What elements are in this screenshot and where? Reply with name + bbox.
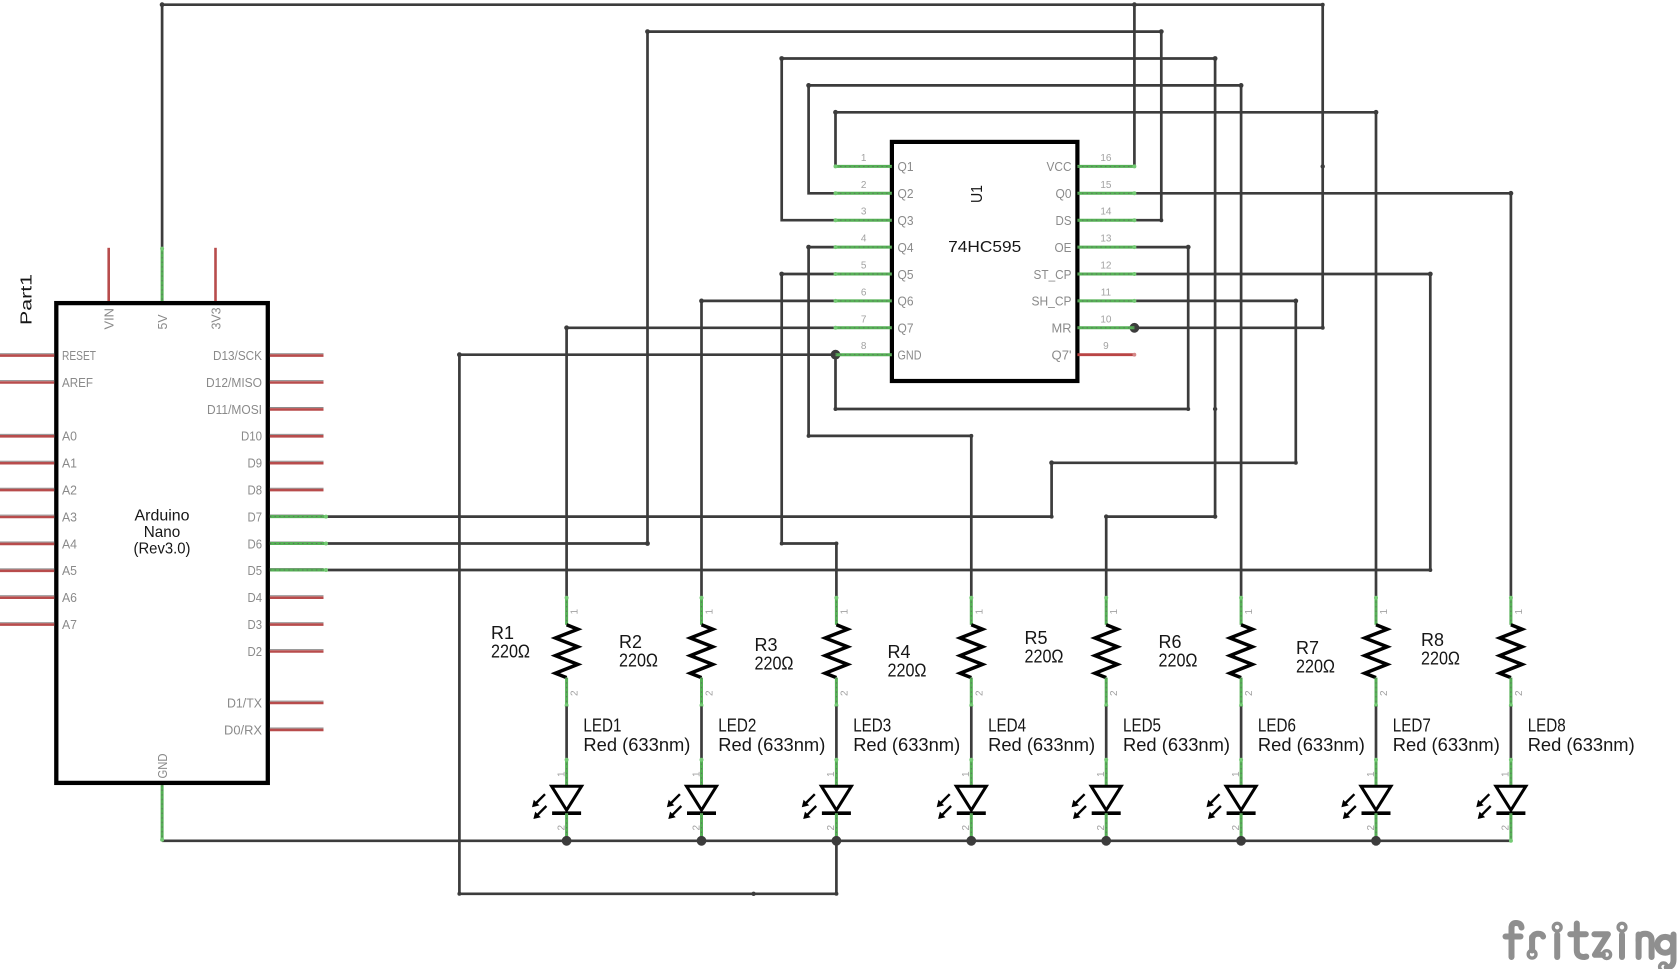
svg-text:Part1: Part1 [19,274,36,325]
svg-text:Red (633nm): Red (633nm) [1393,734,1500,755]
svg-text:1: 1 [1109,609,1120,615]
pin 1 Q1 (U1 left) [836,165,892,168]
wire D6 to DS (pin 14) [326,32,1161,544]
svg-text:2: 2 [1514,690,1525,696]
svg-text:Q5: Q5 [898,267,914,282]
svg-text:2: 2 [839,690,850,696]
svg-text:220Ω: 220Ω [1296,656,1335,677]
wire Q6 (pin 6) to R2 [702,301,836,597]
LED2 emission arrows [670,794,680,804]
svg-text:A4: A4 [62,536,77,551]
wire R7 to LED7 [1375,706,1378,758]
pin D5 (Arduino right) [270,567,324,569]
svg-text:1: 1 [961,771,972,777]
pin RESET (Arduino left) [0,353,54,355]
svg-text:LED7: LED7 [1393,715,1431,736]
wire R3 to LED3 [835,706,838,758]
svg-text:D6: D6 [248,536,263,551]
svg-text:U1: U1 [969,185,986,203]
svg-text:1: 1 [705,609,716,615]
svg-text:Q2: Q2 [898,186,914,201]
svg-text:2: 2 [1379,690,1390,696]
svg-text:A6: A6 [62,590,77,605]
wire GND stub riser to bus [459,355,836,894]
svg-text:Red (633nm): Red (633nm) [988,734,1095,755]
svg-text:AREF: AREF [62,375,93,390]
svg-text:220Ω: 220Ω [755,653,794,674]
svg-text:D2: D2 [248,644,263,659]
wire Q0 (pin 15) to R8 [1134,193,1511,597]
svg-text:16: 16 [1100,153,1112,164]
resistor R5 220ohm [1105,597,1108,625]
pin A2 (Arduino left) [0,487,54,489]
resistor R8 220ohm [1509,597,1512,625]
wire R1 to LED1 [565,706,568,758]
svg-text:Red (633nm): Red (633nm) [583,734,690,755]
svg-text:VCC: VCC [1047,159,1072,174]
svg-text:2: 2 [1231,825,1242,831]
svg-text:A1: A1 [62,456,77,471]
svg-text:OE: OE [1055,240,1072,255]
pin D4 (Arduino right) [270,595,324,597]
pin A1 (Arduino left) [0,460,54,462]
pin 9 Q7' (U1 right) [1077,353,1134,356]
pin 13 OE (U1 right) [1077,246,1134,249]
svg-text:D12/MISO: D12/MISO [206,375,262,390]
pin D1/TX (Arduino right) [270,700,324,702]
pin 2 Q2 (U1 left) [836,192,892,195]
svg-text:2: 2 [1109,690,1120,696]
svg-text:220Ω: 220Ω [619,650,658,671]
op-chip U1 74HC595 body [892,142,1078,381]
svg-text:15: 15 [1100,180,1112,191]
svg-text:D0/RX: D0/RX [224,722,262,737]
svg-text:11: 11 [1101,287,1112,298]
pin 16 VCC (U1 right) [1077,165,1134,168]
svg-text:14: 14 [1100,207,1112,218]
pin 8 GND (U1 left) [836,353,892,356]
LED3 emission arrows [805,794,815,804]
svg-text:1: 1 [1514,609,1525,615]
LED LED8 Red 633nm [1509,759,1512,786]
svg-text:2: 2 [826,825,837,831]
svg-text:2: 2 [705,690,716,696]
svg-text:220Ω: 220Ω [888,660,927,681]
svg-text:2: 2 [1244,690,1255,696]
svg-text:2: 2 [961,825,972,831]
svg-text:A5: A5 [62,563,77,578]
wire D7 to SH_CP (pin 11) [326,301,1296,517]
svg-text:LED5: LED5 [1123,715,1161,736]
pin A0 (Arduino left) [0,433,54,435]
svg-text:ST_CP: ST_CP [1034,267,1072,282]
pin D6 (Arduino right) [270,541,324,543]
wire 5V net: Arduino 5V up and across the top to 74HC595 VCC and MR [162,5,1323,248]
svg-text:LED8: LED8 [1528,715,1566,736]
svg-text:2: 2 [861,180,867,191]
svg-text:LED3: LED3 [853,715,891,736]
svg-text:5: 5 [861,261,867,272]
LED1 emission arrows [535,794,545,804]
svg-text:1: 1 [974,609,985,615]
pin 4 Q4 (U1 left) [836,246,892,249]
svg-text:2: 2 [1096,825,1107,831]
wire Q4 (pin 4) to R4 [809,247,972,597]
pin 14 DS (U1 right) [1077,219,1134,222]
LED LED3 Red 633nm [835,759,838,786]
wire R6 to LED6 [1240,706,1243,758]
svg-text:D9: D9 [248,456,263,471]
svg-text:D8: D8 [248,483,263,498]
svg-text:A0: A0 [62,429,77,444]
svg-text:Red (633nm): Red (633nm) [1528,734,1635,755]
svg-text:10: 10 [1100,314,1112,325]
svg-text:2: 2 [1366,825,1377,831]
svg-text:9: 9 [1103,341,1109,352]
svg-text:LED2: LED2 [718,715,756,736]
pin 10 MR (U1 right) [1077,326,1134,329]
wire Q2 (pin 2) to R6 [809,85,1242,596]
pin 12 ST_CP (U1 right) [1077,273,1134,276]
svg-text:Red (633nm): Red (633nm) [1258,734,1365,755]
wire chip GND to OE (pin 13) [836,247,1189,409]
junction MR pin 10 to 5V [1130,323,1140,333]
svg-text:220Ω: 220Ω [491,641,530,662]
svg-text:1: 1 [570,609,581,615]
LED7 emission arrows [1345,794,1355,804]
junction LED5 cathode on GND bus [1101,836,1111,846]
pin D11/MOSI (Arduino right) [270,407,324,409]
pin 6 Q6 (U1 left) [836,299,892,302]
resistor R2 220ohm [700,597,703,625]
svg-text:2: 2 [974,690,985,696]
pin 5 Q5 (U1 left) [836,273,892,276]
resistor R4 220ohm [970,597,973,625]
svg-text:7: 7 [861,314,867,325]
svg-text:GND: GND [155,754,170,779]
resistor R7 220ohm [1375,597,1378,625]
svg-text:4: 4 [861,234,867,245]
junction LED4 cathode on GND bus [966,836,976,846]
pin VIN (Arduino top) [107,248,110,301]
fritzing watermark [1506,923,1674,969]
wire GND net: Arduino GND down to LED cathode bus [162,839,1511,842]
pin 11 SH_CP (U1 right) [1077,299,1134,302]
junction LED6 cathode on GND bus [1236,836,1246,846]
svg-text:8: 8 [861,341,867,352]
LED4 emission arrows [940,794,950,804]
svg-text:1: 1 [691,771,702,777]
svg-text:Red (633nm): Red (633nm) [1123,734,1230,755]
svg-text:D7: D7 [248,509,263,524]
svg-text:Arduino: Arduino [135,508,190,525]
svg-text:1: 1 [861,153,867,164]
junction LED2 cathode on GND bus [697,836,707,846]
svg-text:D10: D10 [241,429,262,444]
pin D13/SCK (Arduino right) [270,353,324,355]
pin 3 Q3 (U1 left) [836,219,892,222]
svg-text:1: 1 [839,609,850,615]
svg-text:VIN: VIN [102,308,117,330]
svg-text:3V3: 3V3 [208,308,223,330]
svg-text:3: 3 [861,207,867,218]
svg-text:D5: D5 [248,563,263,578]
svg-text:2: 2 [691,825,702,831]
pin D7 (Arduino right) [270,514,324,516]
svg-text:Red (633nm): Red (633nm) [853,734,960,755]
svg-text:Q3: Q3 [898,213,914,228]
resistor R1 220ohm [565,597,568,625]
pin GND (Arduino bottom) [161,785,164,841]
pin D8 (Arduino right) [270,487,324,489]
svg-text:LED1: LED1 [583,715,621,736]
pin A4 (Arduino left) [0,541,54,543]
svg-text:74HC595: 74HC595 [948,239,1021,256]
LED LED5 Red 633nm [1105,759,1108,786]
svg-text:2: 2 [556,825,567,831]
svg-text:A3: A3 [62,509,77,524]
svg-text:220Ω: 220Ω [1421,648,1460,669]
svg-text:1: 1 [1244,609,1255,615]
LED LED7 Red 633nm [1375,759,1378,786]
svg-text:220Ω: 220Ω [1025,646,1064,667]
Arduino Nano Part1 body [56,303,267,783]
svg-text:D3: D3 [248,617,263,632]
LED LED1 Red 633nm [565,759,568,786]
LED8 emission arrows [1480,794,1490,804]
pin A7 (Arduino left) [0,622,54,624]
LED6 emission arrows [1210,794,1220,804]
LED LED2 Red 633nm [700,759,703,786]
junction LED7 cathode on GND bus [1371,836,1381,846]
resistor R6 220ohm [1240,597,1243,625]
svg-text:MR: MR [1052,321,1072,336]
wire Q7 (pin 7) to R1 [567,328,836,597]
junction LED3 cathode on GND bus [832,836,842,846]
pin 7 Q7 (U1 left) [836,326,892,329]
svg-text:1: 1 [826,771,837,777]
wire D5 to ST_CP (pin 12) [326,274,1430,570]
wire Q5 (pin 5) to R3 [782,274,837,597]
svg-text:DS: DS [1056,213,1072,228]
wire R4 to LED4 [970,706,973,758]
pin D9 (Arduino right) [270,460,324,462]
svg-text:13: 13 [1100,234,1112,245]
svg-text:Q4: Q4 [898,240,914,255]
svg-text:D1/TX: D1/TX [227,695,262,710]
svg-text:Q0: Q0 [1056,186,1072,201]
svg-text:5V: 5V [155,314,170,329]
svg-text:1: 1 [1096,771,1107,777]
junction chip GND pin 8 [831,350,841,360]
pin 15 Q0 (U1 right) [1077,192,1134,195]
svg-text:1: 1 [1231,771,1242,777]
svg-text:D4: D4 [248,590,263,605]
pin D3 (Arduino right) [270,622,324,624]
wire R2 to LED2 [700,706,703,758]
svg-text:Q7: Q7 [898,321,914,336]
svg-text:Red (633nm): Red (633nm) [718,734,825,755]
svg-text:A7: A7 [62,617,77,632]
pin A6 (Arduino left) [0,595,54,597]
svg-text:A2: A2 [62,483,77,498]
svg-text:1: 1 [1501,771,1512,777]
wire Q1 (pin 1) to R7 [836,112,1377,597]
pin D12/MISO (Arduino right) [270,380,324,382]
wire Q3 (pin 3) to R5 [782,59,1215,597]
wire R5 to LED5 [1105,706,1108,758]
svg-text:Q7': Q7' [1052,348,1072,363]
pin 3V3 (Arduino top) [214,248,217,301]
svg-text:2: 2 [570,690,581,696]
svg-text:1: 1 [1379,609,1390,615]
svg-text:GND: GND [898,348,922,363]
svg-text:D11/MOSI: D11/MOSI [207,402,262,417]
svg-text:12: 12 [1100,261,1112,272]
pin 5V (Arduino top) [161,248,164,301]
svg-text:2: 2 [1501,825,1512,831]
svg-text:LED4: LED4 [988,715,1026,736]
svg-text:(Rev3.0): (Rev3.0) [134,541,191,558]
svg-text:1: 1 [556,771,567,777]
LED LED4 Red 633nm [970,759,973,786]
LED LED6 Red 633nm [1240,759,1243,786]
svg-text:Nano: Nano [144,524,181,541]
pin A3 (Arduino left) [0,514,54,516]
pin D2 (Arduino right) [270,649,324,651]
wire R8 to LED8 [1510,706,1513,758]
pin AREF (Arduino left) [0,380,54,382]
pin D10 (Arduino right) [270,433,324,435]
svg-text:Q6: Q6 [898,294,914,309]
pin A5 (Arduino left) [0,568,54,570]
svg-text:220Ω: 220Ω [1159,650,1198,671]
svg-text:SH_CP: SH_CP [1032,294,1072,309]
svg-text:RESET: RESET [62,348,96,363]
svg-text:LED6: LED6 [1258,715,1296,736]
svg-text:6: 6 [861,287,867,298]
LED5 emission arrows [1075,794,1085,804]
junction LED1 cathode on GND bus [562,836,572,846]
resistor R3 220ohm [835,597,838,625]
svg-text:1: 1 [1366,771,1377,777]
svg-text:D13/SCK: D13/SCK [213,348,262,363]
wire chip GND (pin 8) to Arduino GND net [459,353,835,356]
pin D0/RX (Arduino right) [270,727,324,729]
svg-text:Q1: Q1 [898,159,914,174]
